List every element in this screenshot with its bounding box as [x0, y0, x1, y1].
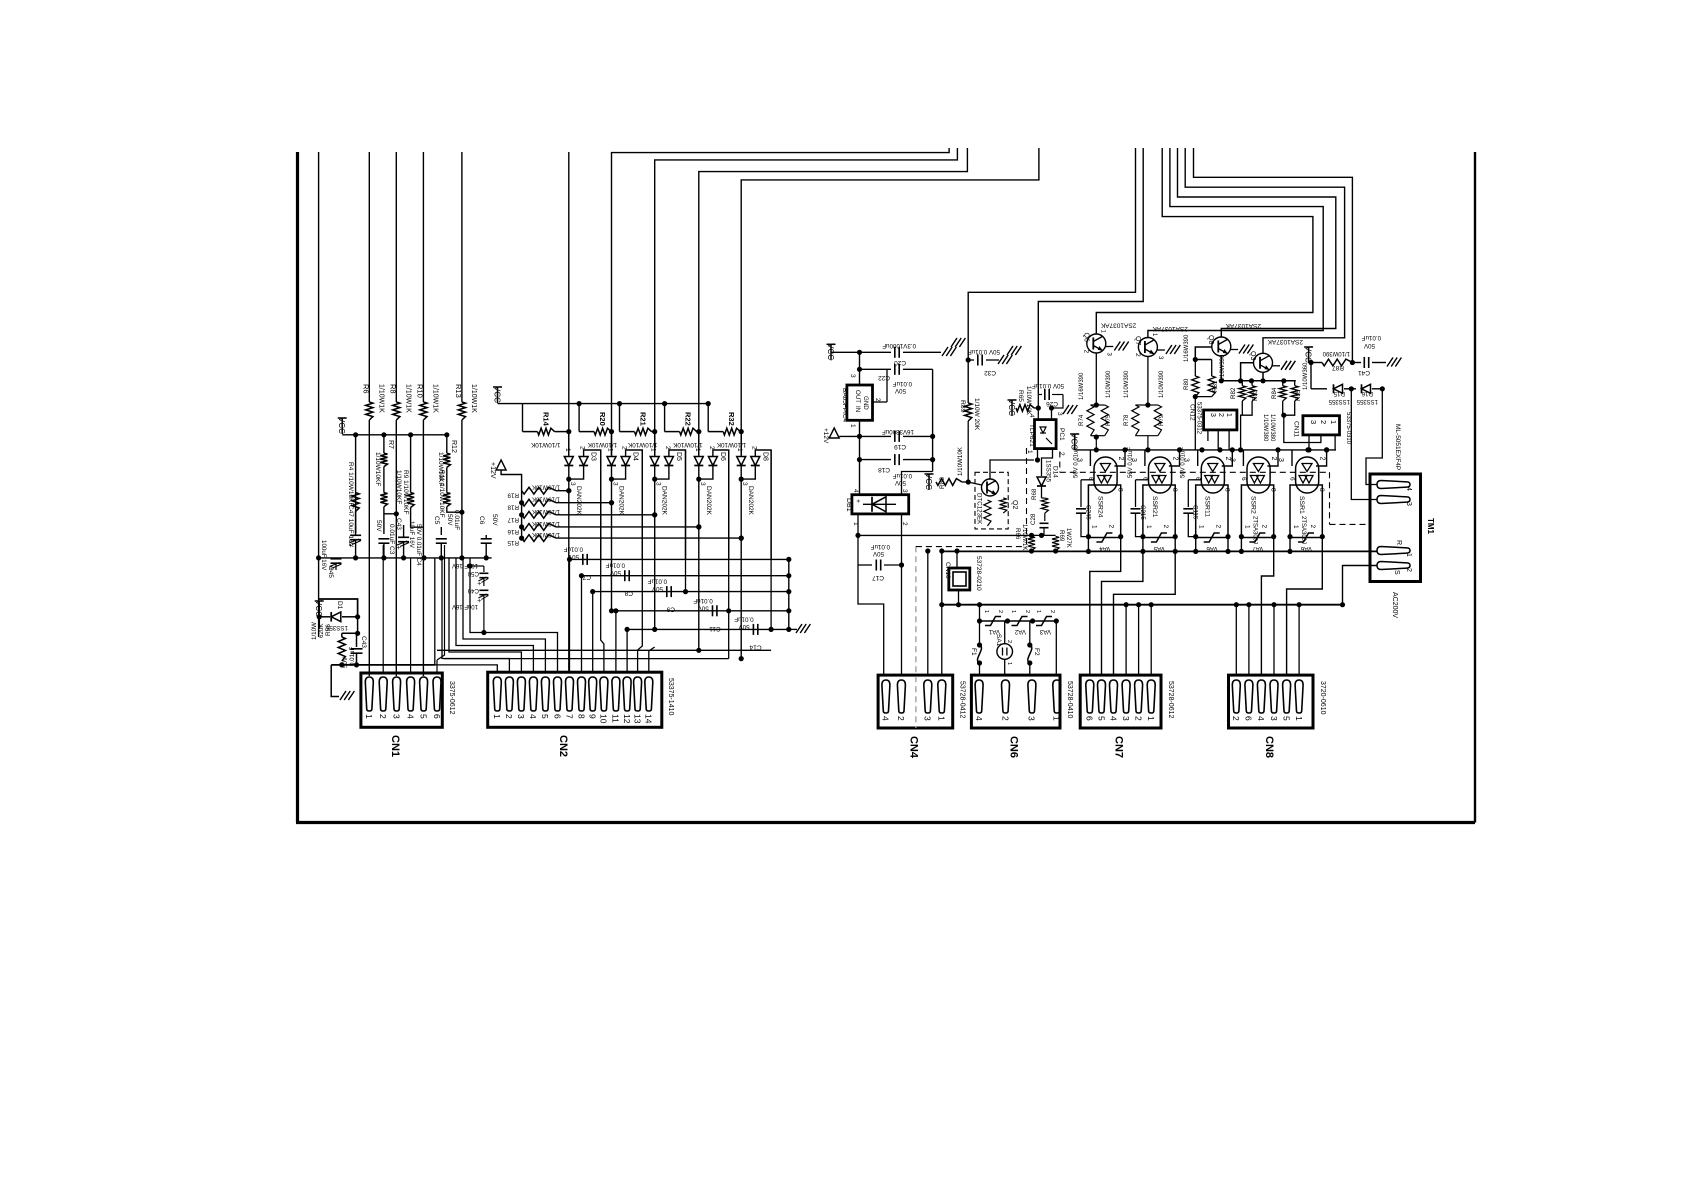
wire Q8 emitter down	[1220, 356, 1222, 381]
svg-text:DAN202K: DAN202K	[705, 486, 712, 516]
pin CN7-3	[1122, 680, 1130, 713]
wire R74/75 bottom	[1091, 435, 1105, 437]
wire C22 row	[860, 368, 892, 370]
connector CN12 53375-0312	[1204, 410, 1237, 430]
pin CN1-1	[365, 677, 373, 711]
pin CN2-11	[612, 677, 620, 711]
pin CN1-3	[393, 677, 401, 711]
wire bus B x369 (R6 line)	[368, 152, 370, 402]
svg-text:+: +	[475, 582, 482, 586]
varistor VA1	[985, 617, 1001, 626]
connector CN11 53375-0310	[1303, 416, 1340, 435]
svg-text:2: 2	[1082, 350, 1089, 354]
svg-text:D8: D8	[761, 452, 768, 461]
svg-text:6: 6	[1289, 477, 1296, 481]
svg-text:C9: C9	[666, 606, 675, 613]
wire R80 column to rail	[1194, 397, 1196, 450]
wire Q3 emitter down	[1262, 372, 1264, 381]
wire Q2 collector up	[990, 460, 1034, 479]
svg-text:620K: 620K	[318, 623, 325, 638]
svg-text:C50: C50	[467, 570, 479, 577]
svg-text:1: 1	[1294, 716, 1304, 721]
svg-text:4: 4	[1108, 716, 1118, 721]
svg-text:C115: C115	[1192, 505, 1199, 520]
wire SSR1 out left to bus	[1289, 537, 1291, 552]
svg-text:53728-0612: 53728-0612	[1167, 681, 1174, 718]
svg-text:2: 2	[1107, 525, 1114, 529]
svg-text:1: 1	[1243, 525, 1250, 529]
svg-text:3: 3	[612, 482, 619, 486]
svg-text:53728-0410: 53728-0410	[1066, 681, 1073, 718]
capacitor C45 100uF 16V	[331, 558, 342, 560]
wire SSR1-2 to CN8-5	[1287, 538, 1323, 677]
svg-text:3720-0610: 3720-0610	[1319, 681, 1326, 715]
wire Q3 gnd	[1273, 365, 1281, 367]
wire R82-R85 top rail	[1221, 380, 1296, 382]
svg-text:C17: C17	[872, 574, 884, 581]
wire SSR21 pin2 up	[1169, 450, 1180, 466]
svg-text:4: 4	[881, 716, 891, 721]
varistor VA4	[1096, 533, 1112, 542]
dashed boundary isolation long	[1060, 471, 1330, 473]
wire staircase2 to R87/C41	[1194, 148, 1353, 363]
wire bus F x568 (D3 line)	[568, 152, 570, 456]
svg-text:5: 5	[1096, 716, 1106, 721]
resistor R69 1W27K	[1052, 536, 1059, 550]
resistor R16 1/10W10K	[522, 524, 556, 531]
pin CN4-3	[924, 680, 932, 713]
terminal block TM1 ML-5051EXF4P	[1370, 474, 1421, 582]
svg-text:1/10W10K: 1/10W10K	[627, 441, 657, 448]
wire SSR21-1 to CN7-5	[1102, 551, 1143, 676]
capacitor C245 56V 0.01uF	[1081, 479, 1094, 481]
svg-text:4: 4	[974, 716, 984, 721]
svg-text:R20: R20	[598, 412, 607, 426]
resistor R8 1/10W1K	[393, 402, 400, 420]
dashed boundary grey vertical through CN4	[915, 546, 917, 728]
svg-text:R9 1/10W10KF: R9 1/10W10KF	[402, 470, 409, 514]
pin CN7-6	[1086, 680, 1094, 713]
diode D15 1SS355	[1334, 384, 1343, 393]
wire left common vertical	[941, 551, 943, 605]
svg-text:3: 3	[1269, 716, 1279, 721]
transistor Q3 2SA1037AK	[1254, 353, 1273, 372]
svg-text:R8: R8	[388, 384, 397, 394]
svg-text:GND: GND	[862, 396, 869, 410]
connector CN4 box 53728-0412	[878, 675, 953, 728]
border frame left	[296, 152, 299, 823]
dashed boundary isolation vertical	[1329, 472, 1331, 524]
svg-text:CN1: CN1	[389, 735, 401, 757]
svg-text:OUT: OUT	[854, 390, 861, 403]
pin CN2-2	[505, 677, 513, 711]
svg-text:SSR11: SSR11	[1204, 496, 1211, 517]
resistor R65 1/10W10K	[1016, 405, 1034, 412]
wire R87 row	[1309, 362, 1322, 364]
pin CN2-7	[566, 677, 574, 711]
wire SSR11 pin2 up	[1222, 450, 1233, 466]
svg-text:R78: R78	[1123, 414, 1130, 426]
wire R6b bottom to R8 line	[384, 507, 396, 514]
pin CN2-1	[493, 677, 501, 711]
svg-text:Q3: Q3	[1249, 351, 1256, 360]
svg-text:50V: 50V	[738, 623, 750, 630]
wire CN4 pin1 up	[941, 605, 943, 676]
svg-text:CN7: CN7	[1113, 736, 1125, 758]
svg-text:1: 1	[1052, 716, 1062, 721]
svg-text:TM1: TM1	[1426, 518, 1435, 535]
svg-text:R79: R79	[1158, 414, 1165, 426]
resistor R80 1/16W390	[1194, 360, 1196, 377]
svg-text:0.01uF: 0.01uF	[893, 472, 912, 479]
wire D14 to R68	[1041, 486, 1043, 498]
svg-text:1/10W1K: 1/10W1K	[404, 384, 411, 413]
svg-text:53728-0210: 53728-0210	[975, 556, 982, 591]
resistor R15 1/10W10K	[522, 535, 556, 542]
ground symbol C20	[942, 347, 948, 356]
svg-text:50V: 50V	[894, 387, 906, 394]
resistor R7 1/10W10KF	[380, 453, 387, 466]
capacitor C43	[356, 633, 358, 647]
svg-text:R19: R19	[507, 492, 519, 499]
wire bus C11 y611	[616, 610, 789, 612]
svg-text:R85: R85	[1295, 389, 1302, 401]
wire D5 pin3 down	[654, 479, 656, 515]
svg-text:R17: R17	[507, 516, 519, 523]
capacitor C6 0.01uF 50V	[485, 535, 487, 539]
svg-text:R80: R80	[1183, 378, 1190, 390]
wire VCC down to IC4	[859, 352, 861, 385]
svg-text:C215: C215	[1139, 505, 1146, 520]
svg-text:DB1: DB1	[845, 498, 852, 512]
svg-text:3375-0612: 3375-0612	[448, 681, 455, 715]
pin CN4-2	[897, 680, 905, 713]
svg-text:3: 3	[741, 482, 748, 486]
wire IC4 GND right	[873, 401, 888, 403]
svg-text:R4 1/10W10KF: R4 1/10W10KF	[347, 462, 354, 506]
wire Q3 base left	[1241, 363, 1254, 381]
svg-text:53375-0310: 53375-0310	[1345, 412, 1351, 445]
wire x685 column	[685, 450, 687, 592]
svg-text:50V: 50V	[697, 604, 709, 611]
svg-text:2: 2	[1024, 610, 1030, 613]
wire CN11 pins	[1308, 435, 1310, 450]
svg-text:1/10W10KF: 1/10W10KF	[395, 470, 402, 504]
svg-text:F1: F1	[970, 648, 977, 656]
wire SSR24 pin2 up	[1114, 450, 1125, 466]
wire Q6 emitter down	[1095, 353, 1097, 405]
svg-text:C14: C14	[749, 643, 761, 650]
svg-text:3: 3	[516, 714, 526, 719]
svg-text:10uF 16V: 10uF 16V	[452, 562, 478, 568]
dual diode D8 DAN202K	[740, 432, 742, 456]
svg-text:50V: 50V	[1363, 342, 1375, 349]
svg-text:C49: C49	[467, 587, 479, 594]
svg-text:F2: F2	[1033, 648, 1040, 656]
svg-text:2: 2	[1117, 457, 1124, 461]
pin CN2-8	[578, 677, 586, 711]
svg-text:CN12: CN12	[1188, 404, 1195, 421]
solid state relay SSR2	[1241, 485, 1273, 538]
svg-text:Q2: Q2	[1011, 500, 1018, 509]
svg-text:C18: C18	[878, 466, 890, 473]
wire D4 pin3 down	[611, 479, 613, 503]
wire PC1 pin1 down to Q2	[1037, 449, 1039, 460]
svg-text:1: 1	[937, 716, 947, 721]
connector CN7 box 53728-0612	[1080, 675, 1161, 728]
svg-text:1: 1	[650, 448, 657, 452]
wire D15/D16 row	[1311, 388, 1327, 390]
svg-text:1/10W10K: 1/10W10K	[672, 441, 702, 448]
capacitor C3 0.01uF	[378, 538, 389, 540]
wire SSR21 out left to bus	[1142, 537, 1144, 552]
VCC symbol D1	[318, 601, 320, 617]
svg-text:R84: R84	[1271, 387, 1278, 399]
pin CN8-2	[1232, 680, 1240, 713]
svg-text:1/10W10K: 1/10W10K	[1025, 386, 1032, 416]
optocoupler PC1 TLP621	[1035, 420, 1057, 449]
diode D1 1SS355	[319, 616, 330, 618]
VCC symbol R87	[1308, 347, 1310, 363]
svg-text:8: 8	[1116, 488, 1123, 492]
svg-text:50V: 50V	[894, 479, 906, 486]
svg-text:12: 12	[622, 714, 632, 724]
svg-text:6: 6	[1085, 716, 1095, 721]
capacitor C115 56V 0.01uF	[1188, 479, 1201, 481]
svg-text:+12V: +12V	[489, 462, 496, 479]
border frame bottom	[296, 821, 1475, 824]
pin CN1-6	[433, 677, 441, 711]
pin CN2-9	[589, 677, 597, 711]
wire R84/85 column to CN11	[1284, 415, 1321, 442]
svg-text:3: 3	[923, 716, 933, 721]
capacitor C11 0.01uF 50V	[712, 605, 714, 616]
svg-text:1/10W390: 1/10W390	[1124, 370, 1130, 398]
svg-text:R21: R21	[639, 412, 648, 426]
dashed boundary PC1 left	[1026, 448, 1028, 546]
svg-text:50V: 50V	[342, 656, 349, 668]
wire CN10 bottom	[958, 590, 960, 605]
resistor R22 1/10W10K	[664, 404, 666, 432]
wire SSR24 out left to bus	[1087, 537, 1089, 552]
svg-text:R56: R56	[325, 624, 332, 636]
wire VCC to C20	[831, 351, 891, 353]
solid state relay SSR11	[1196, 485, 1228, 538]
svg-text:D1: D1	[336, 601, 343, 610]
resistor R85 1/10W360	[1294, 381, 1296, 386]
svg-text:1: 1	[1198, 525, 1205, 529]
dashed boundary PC1 right	[1059, 452, 1061, 473]
pin CN6-3	[1028, 680, 1036, 713]
resistor R14 1/10W10K	[522, 404, 524, 432]
wire x318 hook to D1 column	[319, 599, 358, 617]
pin CN8-6	[1245, 680, 1253, 713]
dual diode D4 DAN202K	[611, 432, 613, 456]
wire SSR2 pin2 up	[1267, 450, 1278, 466]
resistor R79 1/10W390	[1148, 404, 1158, 406]
svg-text:2: 2	[1309, 525, 1316, 529]
wire SSR24 pin3 up	[1089, 450, 1091, 466]
wire staircase2 to Q3	[1185, 148, 1344, 354]
wire SSR1 pin2 up	[1316, 450, 1327, 466]
wire staircase2 to Q8	[1178, 148, 1336, 337]
resistor Q2 emitter	[984, 500, 991, 526]
svg-text:2: 2	[1006, 640, 1012, 643]
dual diode D3 DAN202K	[568, 432, 570, 456]
wire bus C8 y576	[582, 575, 789, 577]
VCC symbol IC4	[830, 344, 832, 360]
svg-text:R89: R89	[959, 400, 966, 413]
svg-text:1/10W390: 1/10W390	[1322, 350, 1350, 356]
wire staircase1 a	[612, 148, 950, 456]
connector CN6 box 53728-0410	[971, 675, 1060, 728]
VCC symbol diode rail	[497, 387, 499, 403]
+12V triangle IC4	[829, 428, 839, 438]
svg-text:C11: C11	[709, 625, 721, 632]
svg-text:0.01uF: 0.01uF	[606, 562, 625, 569]
svg-text:4: 4	[1405, 487, 1412, 491]
svg-text:R74: R74	[1078, 414, 1085, 426]
wire Q8 gnd	[1231, 349, 1238, 351]
pin CN7-2	[1135, 680, 1143, 713]
wire TM1 pin2 left	[1343, 566, 1378, 605]
svg-text:13: 13	[632, 714, 642, 724]
svg-text:8: 8	[576, 714, 586, 719]
svg-text:VCC: VCC	[924, 473, 933, 490]
svg-text:CN10: CN10	[944, 562, 951, 579]
svg-text:3: 3	[569, 482, 576, 486]
svg-text:1/10W 20K: 1/10W 20K	[973, 398, 980, 431]
svg-text:1/10W1K: 1/10W1K	[377, 384, 384, 413]
svg-text:C43: C43	[360, 636, 367, 648]
svg-text:R81: R81	[1212, 380, 1219, 392]
svg-text:R18: R18	[507, 504, 519, 511]
svg-text:1: 1	[1090, 525, 1097, 529]
wire R56 top rail	[342, 632, 358, 634]
svg-text:C8: C8	[624, 590, 633, 597]
svg-text:2SA1037AK: 2SA1037AK	[1267, 338, 1303, 345]
wire Q6 collector to ground	[1106, 346, 1114, 348]
svg-text:AC200V: AC200V	[1391, 592, 1398, 618]
capacitor C32 0.01uF 50V	[968, 359, 974, 361]
pin CN2-6	[554, 677, 562, 711]
svg-text:1: 1	[849, 424, 856, 428]
svg-text:56V 0.01uF: 56V 0.01uF	[1073, 447, 1079, 478]
wire R84/85 bottom	[1283, 401, 1295, 415]
wire staircase2 to Q7	[1148, 148, 1323, 338]
svg-text:1: 1	[736, 448, 743, 452]
svg-text:2: 2	[1270, 457, 1277, 461]
wire CN2 pin7 up	[569, 559, 571, 672]
svg-text:1: 1	[983, 610, 989, 613]
svg-text:VA2: VA2	[1014, 628, 1026, 635]
wire R56 bottom rail y664.9	[331, 664, 435, 666]
svg-text:56V 0.01uF: 56V 0.01uF	[1181, 447, 1187, 478]
svg-text:2: 2	[1405, 568, 1412, 572]
resistor R87 1/10W390	[1322, 359, 1352, 366]
svg-text:Q6: Q6	[1082, 333, 1089, 342]
solid state relay SSR21	[1143, 485, 1175, 538]
wire VCC down to D15	[1310, 363, 1312, 389]
svg-text:R11 1/10W10KF: R11 1/10W10KF	[438, 470, 445, 518]
svg-text:1: 1	[1010, 610, 1016, 613]
wire R80/81 top rail	[1195, 359, 1211, 361]
resistor R11 1/10W10KF	[443, 493, 450, 507]
svg-text:1SS355: 1SS355	[1045, 460, 1052, 483]
pin CN2-14	[645, 677, 653, 711]
wire CN2 pin13 up	[638, 450, 643, 672]
svg-text:C45: C45	[327, 566, 334, 578]
svg-text:3: 3	[655, 482, 662, 486]
svg-text:6: 6	[1240, 477, 1247, 481]
wire bus C9 y592	[593, 591, 789, 593]
svg-text:1/10W1K: 1/10W1K	[470, 384, 477, 413]
svg-text:50V: 50V	[375, 520, 382, 532]
svg-text:C19: C19	[894, 443, 906, 450]
wire CN2 pin12 up	[626, 629, 628, 672]
wire CN2 pin8 up	[581, 576, 583, 673]
svg-text:1: 1	[1225, 413, 1232, 417]
resistor R18 1/10W10K	[522, 499, 556, 506]
svg-text:3: 3	[1405, 502, 1412, 506]
wire R12/R11 column	[446, 435, 448, 453]
svg-text:100uF 16V: 100uF 16V	[320, 540, 327, 571]
ground symbol cap bus	[796, 624, 802, 633]
wire SSR2 pin3 up	[1242, 450, 1244, 466]
svg-text:1/10W380: 1/10W380	[1262, 414, 1268, 442]
svg-text:2: 2	[1133, 716, 1143, 721]
svg-text:1SS355: 1SS355	[1328, 398, 1350, 404]
svg-text:6: 6	[1244, 716, 1254, 721]
wire R78/79 bottom	[1135, 435, 1158, 437]
svg-text:50V: 50V	[651, 585, 663, 592]
svg-text:1/10W10K: 1/10W10K	[532, 508, 560, 514]
wire R4 bottom	[355, 512, 357, 534]
svg-text:R6: R6	[361, 384, 370, 394]
svg-text:VA3: VA3	[1039, 628, 1051, 635]
+12V supply triangle	[496, 460, 506, 470]
svg-text:3: 3	[1209, 413, 1216, 417]
capacitor C20 0.3V1000uF	[894, 347, 896, 358]
wire staircase2 to R89/C32	[968, 148, 1135, 403]
svg-text:50V 0.01uF: 50V 0.01uF	[1032, 382, 1064, 389]
svg-text:VCC: VCC	[1007, 399, 1016, 416]
svg-text:8: 8	[1318, 488, 1325, 492]
wire DC return y535.4	[858, 534, 1032, 536]
diode D16 1SS355	[1362, 384, 1371, 393]
wire SSR24-2 to CN7-6	[1090, 538, 1121, 677]
ground symbol bottom-left	[340, 691, 346, 700]
svg-text:1/10W1K: 1/10W1K	[431, 384, 438, 413]
capacitor C26 0.01uF	[1038, 394, 1042, 396]
svg-text:SSR24: SSR24	[1096, 496, 1103, 518]
svg-text:1/10W390: 1/10W390	[1106, 370, 1112, 398]
svg-text:50V: 50V	[609, 569, 621, 576]
svg-text:1: 1	[1006, 662, 1012, 665]
wire SSR21 pin3 up	[1144, 450, 1146, 466]
svg-text:2: 2	[1319, 457, 1326, 461]
svg-text:R69: R69	[1058, 530, 1065, 542]
wire C26 gnd	[1052, 395, 1064, 409]
svg-text:0.01uF: 0.01uF	[564, 545, 583, 552]
svg-text:1/10W10K: 1/10W10K	[532, 496, 560, 502]
svg-text:R12: R12	[450, 440, 457, 453]
svg-text:DTC123EK: DTC123EK	[976, 493, 983, 525]
capacitor C9 0.01uF 50V	[666, 586, 668, 597]
svg-text:2: 2	[1215, 525, 1222, 529]
wire staircase2 to Q6	[1096, 148, 1313, 334]
svg-text:6: 6	[552, 714, 562, 719]
